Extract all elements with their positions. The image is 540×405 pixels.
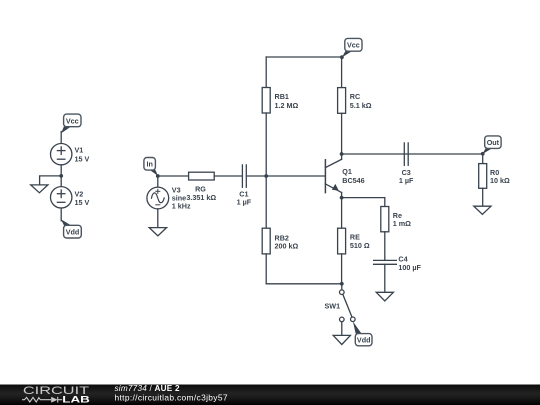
svg-text:5.1 kΩ: 5.1 kΩ xyxy=(350,101,372,110)
svg-text:510 Ω: 510 Ω xyxy=(350,241,370,250)
svg-text:V1: V1 xyxy=(75,146,84,155)
svg-text:1 kHz: 1 kHz xyxy=(172,202,191,211)
svg-text:1 mΩ: 1 mΩ xyxy=(393,219,411,228)
svg-text:SW1: SW1 xyxy=(325,301,341,310)
svg-text:RC: RC xyxy=(350,92,360,101)
svg-text:BC546: BC546 xyxy=(342,176,364,185)
svg-text:LAB: LAB xyxy=(62,395,90,405)
svg-text:Vdd: Vdd xyxy=(66,227,80,236)
svg-text:http://circuitlab.com/c3jby57: http://circuitlab.com/c3jby57 xyxy=(115,393,228,403)
svg-text:RE: RE xyxy=(350,233,360,242)
svg-text:Vcc: Vcc xyxy=(66,116,79,125)
svg-text:Vdd: Vdd xyxy=(357,336,371,345)
svg-text:1.2 MΩ: 1.2 MΩ xyxy=(275,101,299,110)
svg-text:200 kΩ: 200 kΩ xyxy=(275,242,299,251)
svg-text:Q1: Q1 xyxy=(342,167,352,176)
svg-text:15 V: 15 V xyxy=(75,154,90,163)
svg-text:In: In xyxy=(147,160,153,169)
svg-text:RB1: RB1 xyxy=(275,92,289,101)
svg-text:Vcc: Vcc xyxy=(347,41,360,50)
svg-text:1 µF: 1 µF xyxy=(399,176,414,185)
svg-text:3.351 kΩ: 3.351 kΩ xyxy=(186,193,216,202)
svg-text:Out: Out xyxy=(487,138,500,147)
svg-text:10 kΩ: 10 kΩ xyxy=(490,176,510,185)
svg-text:1 µF: 1 µF xyxy=(237,197,252,206)
svg-text:100 µF: 100 µF xyxy=(398,263,421,272)
svg-text:V2: V2 xyxy=(75,189,84,198)
svg-text:15 V: 15 V xyxy=(75,198,90,207)
svg-text:sim7734 / AUE 2: sim7734 / AUE 2 xyxy=(115,384,180,393)
